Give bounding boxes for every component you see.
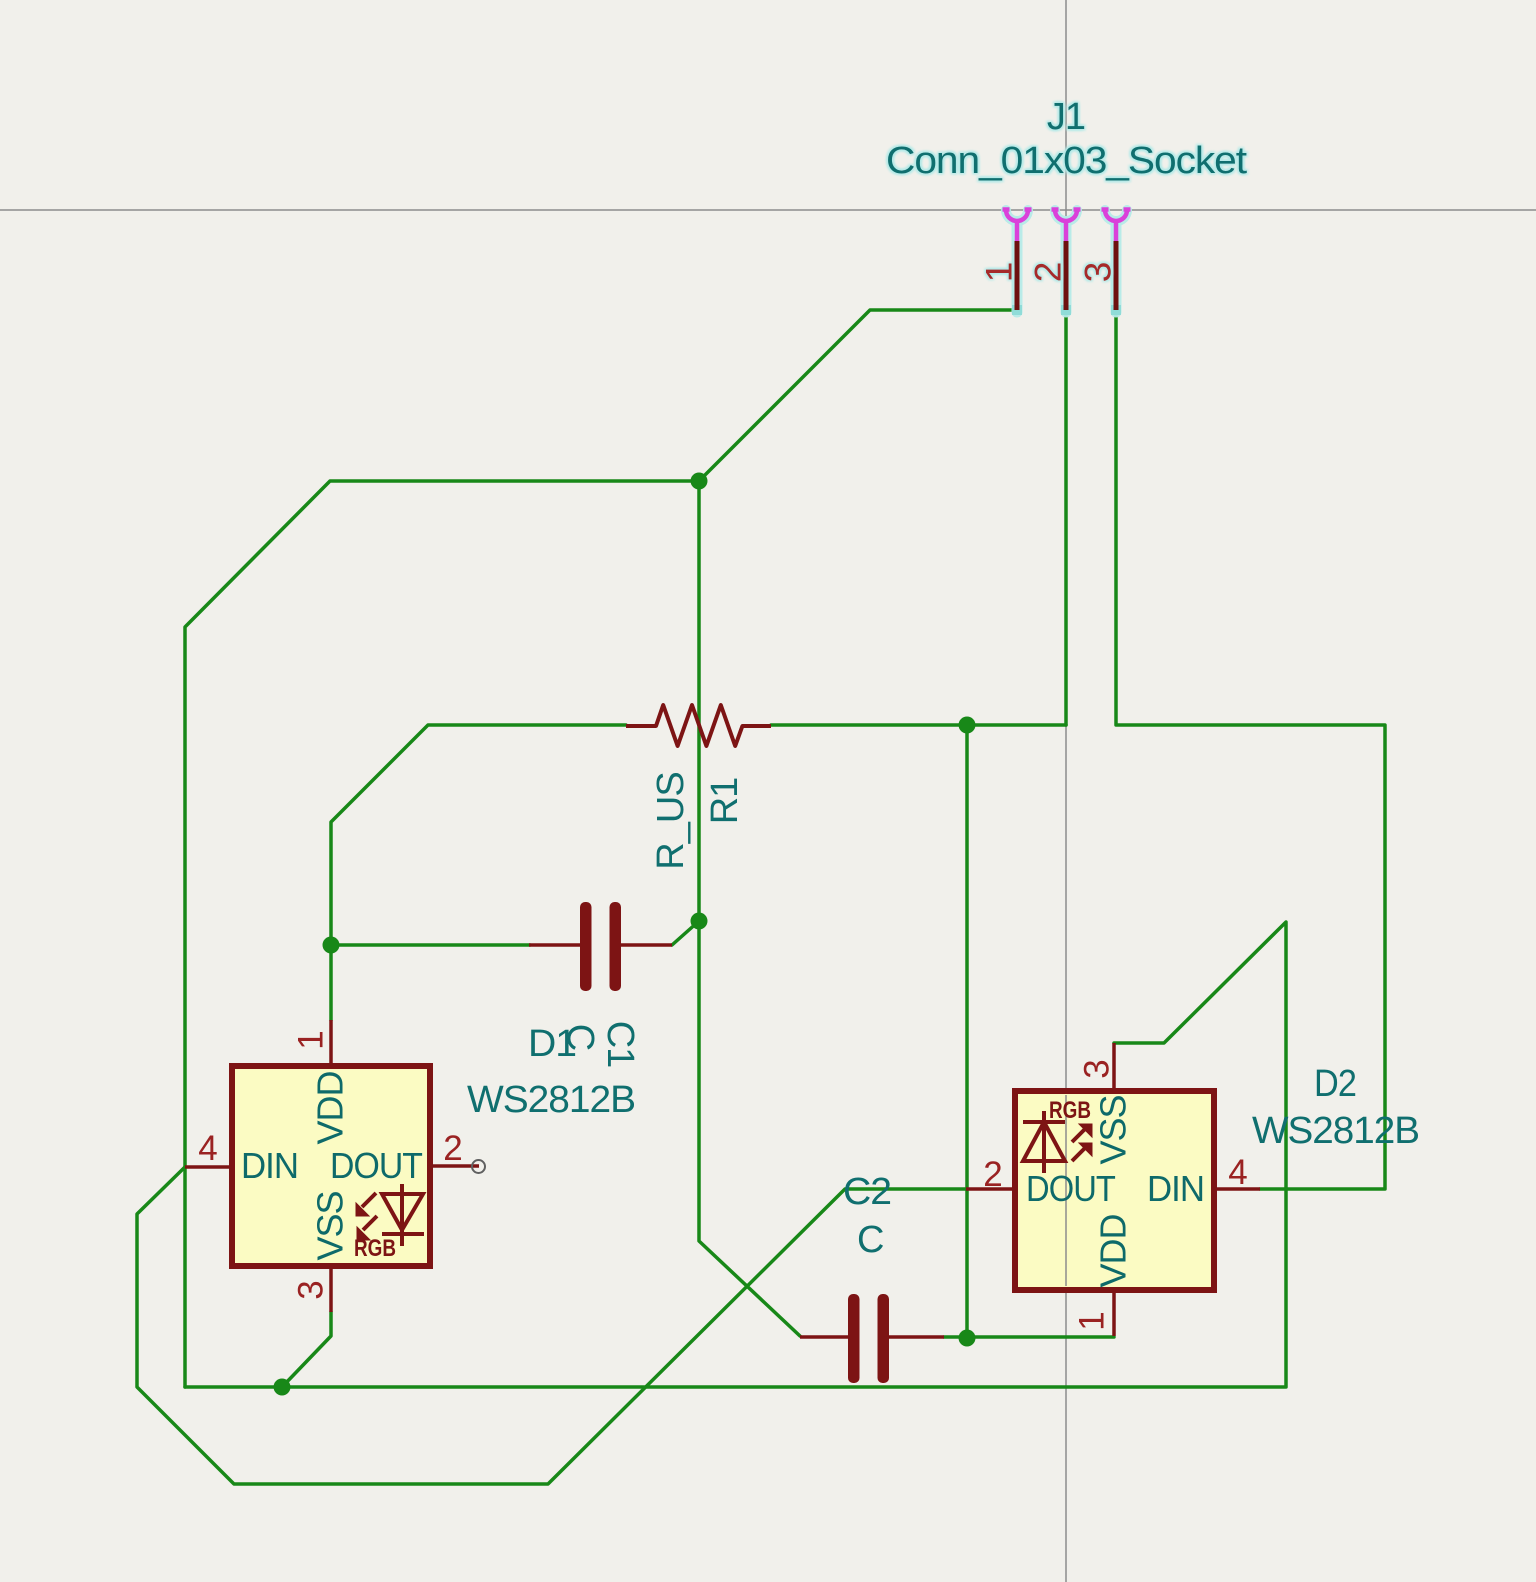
svg-text:1: 1 [292, 1030, 331, 1049]
svg-text:RGB: RGB [1049, 1097, 1091, 1124]
svg-text:VDD: VDD [1093, 1214, 1134, 1287]
wire vertical below D1.4 to bottom rail [183, 1167, 187, 1387]
LED D1 pin 2 unconnected circle [472, 1160, 485, 1173]
LED D1 body [232, 1066, 430, 1266]
svg-text:C: C [857, 1219, 883, 1261]
wire R1 right to J1.2 column [771, 723, 1066, 727]
wire D1.4 down left leg [137, 1167, 966, 1484]
svg-text:3: 3 [292, 1280, 331, 1299]
junction C1-left [323, 937, 340, 954]
wire junction B down to junction E [965, 725, 969, 1338]
svg-text:1: 1 [979, 262, 1020, 283]
capacitor C2 [800, 1294, 944, 1383]
LED D2 pin 1 VDD [1112, 1290, 1116, 1336]
axis horizontal gray line [0, 209, 1536, 211]
svg-text:2: 2 [443, 1129, 462, 1168]
svg-text:D1: D1 [528, 1023, 576, 1065]
LED D2 internal diode symbol [1023, 1111, 1065, 1173]
junction bottom-rail [274, 1379, 291, 1396]
resistor R1 [626, 705, 771, 746]
svg-text:RGB: RGB [354, 1235, 396, 1262]
wire D2.1 to junction E [967, 1335, 1114, 1339]
svg-text:DIN: DIN [241, 1145, 298, 1186]
LED D2 pin 2 DOUT [966, 1187, 1015, 1191]
wire C1 right diagonal [672, 921, 699, 945]
LED D2 body [1015, 1091, 1214, 1290]
LED D2 emission arrow 2 [1072, 1143, 1092, 1161]
wire J1.3 to D2.4 [1116, 310, 1385, 1189]
svg-text:C1: C1 [599, 1021, 641, 1068]
wire junction A to D1 DIN column [185, 481, 699, 1167]
svg-text:1: 1 [1073, 1311, 1112, 1330]
wire C2 right [944, 1335, 967, 1339]
junction E [959, 1330, 976, 1347]
LED D1 pin 1 VDD [329, 1020, 333, 1066]
junction A [691, 473, 708, 490]
svg-text:VDD: VDD [310, 1071, 351, 1144]
J1 halo strokes [1006, 210, 1127, 312]
J1 pin 2 lead [1064, 241, 1069, 310]
svg-text:VSS: VSS [310, 1191, 351, 1260]
svg-text:WS2812B: WS2812B [467, 1079, 635, 1121]
junction B [959, 717, 976, 734]
LED D2 pin 4 DIN [1214, 1187, 1260, 1191]
J1 wire end squares [1012, 305, 1121, 315]
svg-text:DOUT: DOUT [330, 1145, 423, 1186]
svg-text:C2: C2 [843, 1171, 891, 1213]
J1 pin 3 lead [1114, 241, 1119, 310]
svg-text:R1: R1 [704, 778, 746, 825]
LED D2 pin 3 VSS [1112, 1043, 1116, 1091]
J1 pin 1 socket arc [1003, 210, 1032, 242]
svg-text:J1: J1 [1047, 96, 1085, 138]
LED D2 emission arrow 1 [1072, 1124, 1092, 1142]
wire J1.2 vertical [1064, 310, 1068, 725]
wire net1 J1.1 to junction A [699, 310, 1017, 481]
J1 pin 3 socket arc [1102, 210, 1131, 242]
svg-text:WS2812B: WS2812B [1252, 1110, 1419, 1152]
svg-text:VSS: VSS [1093, 1095, 1134, 1164]
svg-text:4: 4 [198, 1129, 217, 1168]
wire bottom rail to D2.3 [185, 922, 1286, 1387]
svg-text:D2: D2 [1314, 1063, 1356, 1105]
svg-text:DIN: DIN [1147, 1168, 1204, 1209]
LED D1 internal diode symbol [382, 1184, 424, 1246]
wire R1 left to D1.1 [331, 725, 626, 1020]
svg-text:2: 2 [1028, 262, 1069, 283]
LED D1 pin 2 DOUT [430, 1164, 479, 1168]
svg-text:3: 3 [1078, 262, 1119, 283]
svg-text:Conn_01x03_Socket: Conn_01x03_Socket [886, 140, 1248, 182]
LED D1 emission arrow 1 [356, 1193, 376, 1216]
wire D1.3 to bottom rail [282, 1312, 331, 1387]
axis vertical gray line [1065, 0, 1067, 1582]
J1 pin 2 socket arc [1052, 210, 1081, 242]
LED D1 emission arrow 2 [357, 1216, 377, 1240]
wire C1 left [331, 943, 530, 947]
wire junction A down to C2 left [699, 481, 800, 1336]
svg-text:2: 2 [983, 1155, 1002, 1194]
junction C1-right [691, 913, 708, 930]
connector J1 (selected, cyan halo) [886, 96, 1248, 315]
svg-text:DOUT: DOUT [1026, 1168, 1116, 1209]
J1 pin 1 lead [1015, 241, 1020, 310]
LED D1 pin 3 VSS [329, 1266, 333, 1312]
LED D1 pin 4 DIN [185, 1165, 232, 1169]
svg-text:3: 3 [1078, 1059, 1117, 1078]
svg-text:4: 4 [1228, 1153, 1247, 1192]
capacitor C1 [529, 902, 672, 991]
svg-text:R_US: R_US [650, 772, 692, 869]
